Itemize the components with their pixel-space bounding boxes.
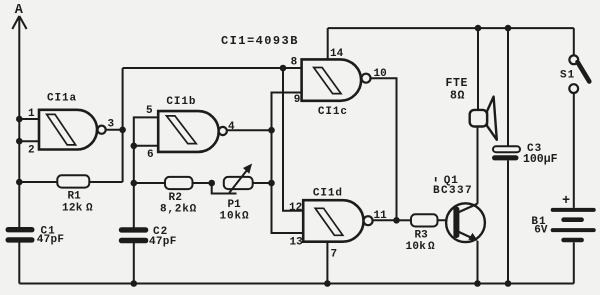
switch S1 top contact — [569, 55, 578, 64]
wire R3 left — [397, 219, 412, 221]
wire top row to pin 8 — [123, 67, 302, 69]
battery B1 plate 3 long — [551, 228, 596, 232]
svg-text:CI1c: CI1c — [318, 106, 348, 118]
wire collector vertical — [477, 127, 479, 204]
wire pins 9/13 rail — [272, 93, 304, 234]
svg-text:1: 1 — [28, 108, 35, 120]
svg-text:8Ω: 8Ω — [450, 89, 465, 102]
wire R3 right to base — [438, 219, 455, 221]
capacitor C3 negative plate — [492, 155, 519, 160]
wire top supply rail — [328, 27, 574, 29]
speaker FTE horn — [487, 97, 497, 140]
wire battery to bottom rail — [573, 242, 575, 283]
wire pin 3 output — [106, 129, 123, 131]
wire pin 14 — [327, 28, 329, 59]
svg-text:CI1a: CI1a — [47, 93, 77, 105]
svg-text:10k: 10k — [406, 241, 427, 253]
wire pin 7 to ground rail — [326, 242, 328, 284]
wire pin 6 stub — [134, 145, 158, 147]
switch S1 upper lead — [573, 28, 575, 55]
Q1 label tick — [435, 177, 437, 182]
wire pin 4 output to right rail — [227, 129, 272, 131]
node speaker branch junction — [475, 25, 482, 32]
wire bottom rail — [19, 283, 574, 285]
svg-text:5: 5 — [146, 105, 153, 117]
P1 wiper arrow — [229, 164, 252, 193]
node pin2 junction — [16, 138, 23, 145]
gate CI1c hysteresis band — [314, 68, 341, 94]
node rail / P1 junction — [268, 180, 275, 187]
wire R2 row left — [134, 182, 165, 184]
svg-text:10kΩ: 10kΩ — [220, 210, 250, 222]
svg-text:CI1=4093B: CI1=4093B — [221, 34, 299, 48]
wire speaker branch upper — [477, 28, 479, 111]
wire R1 row right — [89, 181, 122, 183]
NAND gate CI1b body — [158, 111, 219, 152]
battery B1 plate 2 short — [561, 217, 584, 222]
capacitor C3 positive plate — [493, 146, 520, 152]
battery B1 plate 4 short — [561, 238, 584, 243]
resistor R3 — [411, 214, 438, 226]
gate CI1b hysteresis band — [167, 116, 197, 144]
antenna A — [12, 16, 26, 29]
svg-text:100µF: 100µF — [523, 153, 558, 166]
wire left rail lower — [18, 243, 20, 284]
wire C3 branch upper — [507, 28, 509, 147]
svg-text:R1: R1 — [68, 191, 82, 203]
svg-text:13: 13 — [290, 237, 304, 249]
svg-text:+: + — [562, 194, 570, 209]
wire emitter vertical — [477, 241, 479, 284]
wire pin 1 stub — [19, 118, 40, 120]
wire pin12 drop vertical — [283, 68, 303, 211]
wire pin 11 output — [373, 219, 397, 221]
transistor Q1 circle — [446, 203, 485, 242]
svg-text:6V: 6V — [534, 225, 548, 237]
switch S1 bottom contact — [569, 84, 578, 93]
svg-text:FTE: FTE — [446, 77, 469, 90]
node pin3 feedback junction — [119, 127, 126, 134]
svg-text:9: 9 — [294, 94, 301, 106]
node C3 / bottom rail junction — [505, 280, 512, 287]
gate CI1c output bubble — [362, 74, 371, 83]
capacitor C1 — [6, 227, 35, 243]
NAND gate CI1a body — [39, 110, 97, 150]
svg-text:A: A — [15, 3, 24, 18]
node input rail / R2 junction — [131, 180, 138, 187]
svg-text:S1: S1 — [560, 70, 575, 82]
node rail / pin4 junction — [268, 127, 275, 134]
node input rail / bottom rail junction — [131, 280, 138, 287]
wire input rail below C2 — [133, 243, 135, 284]
Q1 collector stroke — [458, 204, 477, 213]
NAND gate CI1d body — [303, 200, 363, 242]
svg-text:8: 8 — [291, 56, 298, 68]
svg-text:R2: R2 — [169, 192, 183, 204]
speaker FTE driver — [470, 110, 487, 127]
gate CI1a output bubble — [98, 126, 106, 134]
svg-text:P1: P1 — [228, 199, 242, 211]
wire left rail upper — [18, 16, 20, 228]
Q1 emitter arrowhead — [468, 233, 477, 241]
node pin8/pin12 junction — [280, 65, 287, 72]
svg-text:CI1d: CI1d — [313, 187, 343, 199]
wire P1 wiper tie — [212, 183, 237, 194]
node C3 branch junction — [505, 25, 512, 32]
gate CI1b output bubble — [219, 127, 227, 135]
wire S1 to battery — [573, 93, 575, 208]
svg-text:3: 3 — [108, 118, 115, 130]
wire R1 row left — [19, 181, 57, 183]
svg-text:CI1b: CI1b — [166, 96, 196, 108]
gate CI1d hysteresis band — [315, 208, 343, 235]
potentiometer P1 body — [224, 177, 253, 189]
node emitter / bottom rail junction — [474, 280, 481, 287]
wire C3 branch lower — [507, 160, 509, 283]
node R1 left junction — [16, 179, 23, 186]
wire P1 right — [253, 182, 272, 184]
battery B1 plate 1 long — [551, 208, 596, 212]
wire pin 2 stub — [19, 140, 40, 142]
svg-text:8,2kΩ: 8,2kΩ — [160, 203, 197, 215]
NAND gate CI1c body — [302, 59, 361, 100]
wire CI1b input rail — [134, 117, 158, 227]
svg-text:2: 2 — [28, 145, 35, 157]
svg-text:12: 12 — [289, 202, 302, 214]
switch S1 lever — [578, 62, 590, 82]
svg-text:47pF: 47pF — [149, 236, 177, 248]
node pins 10-11 tie junction — [393, 217, 400, 224]
svg-text:12k: 12k — [62, 203, 83, 215]
node pin1 junction — [16, 116, 23, 123]
node R2/P1 junction — [208, 180, 215, 187]
wire R2 row right — [193, 182, 212, 184]
svg-text:14: 14 — [330, 48, 344, 60]
gate CI1d output bubble — [364, 216, 373, 225]
node pin6 junction — [131, 143, 138, 150]
capacitor C2 — [119, 227, 149, 243]
resistor R2 — [165, 177, 193, 189]
gate CI1a hysteresis band — [47, 114, 76, 144]
svg-text:Ω: Ω — [428, 241, 435, 253]
svg-text:R3: R3 — [415, 229, 429, 241]
svg-text:Ω: Ω — [86, 203, 93, 215]
Q1 emitter stroke — [458, 232, 475, 240]
Q1 base bar — [453, 207, 459, 239]
svg-text:47pF: 47pF — [37, 234, 65, 246]
resistor R1 — [57, 175, 89, 187]
node pin7 / bottom rail junction — [324, 280, 331, 287]
svg-text:6: 6 — [147, 149, 154, 161]
wire pin 10 output — [371, 78, 397, 220]
wire feedback vertical x=122.6 — [122, 68, 124, 182]
svg-text:BC337: BC337 — [433, 185, 473, 197]
svg-text:7: 7 — [331, 249, 338, 261]
